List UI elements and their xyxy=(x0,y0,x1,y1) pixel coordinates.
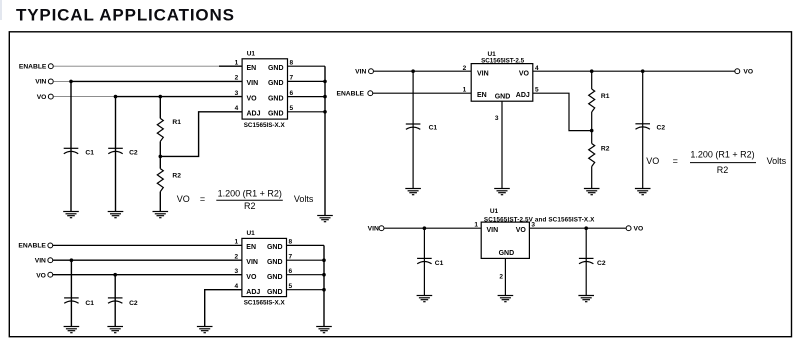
svg-text:=: = xyxy=(200,194,205,204)
svg-text:VO: VO xyxy=(519,71,530,78)
svg-text:GND: GND xyxy=(268,65,284,72)
node VIN terminal xyxy=(379,226,384,231)
svg-text:EN: EN xyxy=(246,244,256,251)
resistor R1 xyxy=(157,118,163,141)
wire VO node to R1 xyxy=(591,71,593,89)
junction VO/R1 xyxy=(159,95,163,99)
wire C2 branch xyxy=(115,97,117,211)
svg-text:R1: R1 xyxy=(601,93,610,100)
capacitor C2 xyxy=(635,124,650,129)
svg-text:VIN: VIN xyxy=(487,227,499,234)
svg-text:1: 1 xyxy=(463,87,467,94)
svg-text:VIN: VIN xyxy=(247,80,259,87)
svg-text:C1: C1 xyxy=(85,300,94,307)
junction pin 6 xyxy=(323,95,327,99)
svg-text:C1: C1 xyxy=(429,124,438,131)
IC U1 body xyxy=(242,238,287,296)
svg-text:VO: VO xyxy=(634,226,644,233)
svg-text:3: 3 xyxy=(234,268,238,275)
svg-text:3: 3 xyxy=(495,115,499,122)
capacitor C1 xyxy=(64,298,79,303)
svg-text:ENABLE: ENABLE xyxy=(19,64,47,71)
junction pin 7 xyxy=(322,258,326,262)
svg-text:U1: U1 xyxy=(490,208,499,215)
ground C2 xyxy=(578,296,594,302)
junction pin 7 xyxy=(323,80,327,84)
svg-text:Volts: Volts xyxy=(767,156,787,166)
svg-text:EN: EN xyxy=(477,92,487,99)
wire C1 branch xyxy=(412,71,414,188)
svg-text:4: 4 xyxy=(234,283,238,290)
wire pin 5 stub xyxy=(287,289,325,291)
svg-text:5: 5 xyxy=(535,87,539,94)
junction pin 5 xyxy=(322,288,326,292)
wire U1 pin 4 VO to VO terminal xyxy=(533,70,735,72)
wire C1 branch xyxy=(423,228,425,295)
svg-text:VO: VO xyxy=(743,69,753,76)
capacitor C1 xyxy=(406,124,421,129)
junction VO/C2 xyxy=(641,69,645,73)
wire C2 branch xyxy=(585,228,587,295)
svg-text:5: 5 xyxy=(290,105,294,112)
node VO terminal xyxy=(48,272,53,277)
node VIN terminal xyxy=(48,258,53,263)
node VO terminal xyxy=(48,94,53,99)
capacitor C2 xyxy=(108,148,123,153)
ground C1 xyxy=(64,327,80,333)
wire GND pin to ground xyxy=(504,258,506,295)
formula VO = 1.200(R1+R2)/R2 Volts xyxy=(646,150,786,176)
svg-text:TYPICAL APPLICATIONS: TYPICAL APPLICATIONS xyxy=(16,6,235,25)
svg-text:C2: C2 xyxy=(129,150,138,157)
svg-text:=: = xyxy=(673,156,678,166)
wire pin 7 stub xyxy=(288,80,326,82)
IC U1 body xyxy=(471,64,533,102)
svg-text:VO: VO xyxy=(36,272,46,279)
svg-text:GND: GND xyxy=(495,93,511,100)
junction VO/C2 xyxy=(584,226,588,230)
node VO terminal xyxy=(626,226,631,231)
svg-text:ENABLE: ENABLE xyxy=(18,243,46,250)
ground GND bus xyxy=(316,327,332,333)
wire pin 5 stub xyxy=(288,111,326,113)
svg-text:C2: C2 xyxy=(129,300,138,307)
svg-text:GND: GND xyxy=(268,111,284,118)
svg-text:SC1565IST-2.5V and SC1565IST-X: SC1565IST-2.5V and SC1565IST-X.X xyxy=(484,217,595,224)
resistor R1 xyxy=(589,89,595,112)
junction VO/C2 xyxy=(113,273,117,277)
node ENABLE terminal xyxy=(48,243,53,248)
svg-text:7: 7 xyxy=(289,253,293,260)
wire VO terminal to C2 node xyxy=(53,274,115,276)
svg-text:6: 6 xyxy=(290,90,294,97)
wire VO node to R1 xyxy=(159,97,161,119)
svg-text:R2: R2 xyxy=(172,173,181,180)
svg-text:C2: C2 xyxy=(597,260,606,267)
ground U1 GND xyxy=(494,189,510,195)
wire pin 7 stub xyxy=(287,259,325,261)
ground C1 xyxy=(417,296,433,302)
node ENABLE terminal xyxy=(48,64,53,69)
wire U1 pin 5 ADJ to R1/R2 node xyxy=(533,93,592,130)
wire pin 6 stub xyxy=(287,274,325,276)
svg-text:R2: R2 xyxy=(244,201,256,211)
svg-text:GND: GND xyxy=(267,244,283,251)
node VO terminal xyxy=(735,69,740,74)
wire pin 6 stub xyxy=(288,96,326,98)
svg-text:2: 2 xyxy=(463,65,467,72)
svg-text:VIN: VIN xyxy=(477,71,489,78)
junction VO/C2 xyxy=(114,95,118,99)
wire C2 branch xyxy=(114,275,116,326)
resistor R2 xyxy=(157,169,163,192)
ground R2 xyxy=(584,189,600,195)
ground C1 xyxy=(63,212,79,218)
wire VO terminal to C2 node xyxy=(54,96,116,98)
svg-text:EN: EN xyxy=(247,65,257,72)
svg-text:2: 2 xyxy=(499,273,503,280)
svg-text:VIN: VIN xyxy=(355,69,366,76)
wire VIN to U1 pin 1 xyxy=(384,227,481,229)
wire C1 branch xyxy=(70,260,72,326)
wire GND bus to ground xyxy=(323,245,325,326)
svg-text:SC1565IS-X.X: SC1565IS-X.X xyxy=(244,122,286,129)
junction VO/R1 xyxy=(590,69,594,73)
node VIN terminal xyxy=(369,69,374,74)
wire C2 node to U1 pin 3 xyxy=(116,96,243,98)
junction VIN/C1 xyxy=(411,69,415,73)
svg-text:VIN: VIN xyxy=(246,259,258,266)
svg-text:GND: GND xyxy=(267,259,283,266)
IC U1 body xyxy=(481,222,529,258)
wire GND pin to ground xyxy=(501,101,503,188)
resistor R2 xyxy=(589,144,595,167)
svg-text:ENABLE: ENABLE xyxy=(337,91,365,98)
svg-text:C1: C1 xyxy=(435,260,444,267)
ground R2 xyxy=(153,212,169,218)
junction ADJ/R1/R2 xyxy=(590,129,594,133)
junction VIN/C1 xyxy=(69,80,73,84)
formula VO = 1.200(R1+R2)/R2 Volts xyxy=(177,188,314,211)
junction VIN/C1 xyxy=(423,226,427,230)
capacitor C1 xyxy=(64,148,79,153)
junction R1/R2/ADJ xyxy=(159,155,163,159)
wire VIN terminal to C1 node xyxy=(54,80,72,82)
svg-text:VO: VO xyxy=(646,156,659,166)
wire C1 branch xyxy=(70,81,72,211)
wire pin 8 stub xyxy=(287,244,325,246)
svg-text:8: 8 xyxy=(290,59,294,66)
capacitor C1 xyxy=(417,258,432,263)
ground ADJ xyxy=(197,327,213,333)
capacitor C2 xyxy=(108,298,123,303)
svg-text:3: 3 xyxy=(531,222,535,229)
wire VIN terminal to C1 node xyxy=(53,259,71,261)
svg-text:VO: VO xyxy=(247,95,258,102)
svg-text:VIN: VIN xyxy=(368,226,379,233)
svg-text:ADJ: ADJ xyxy=(246,289,260,296)
svg-text:1: 1 xyxy=(235,59,239,66)
svg-text:Volts: Volts xyxy=(294,194,314,204)
node VIN terminal xyxy=(48,79,53,84)
ground C1 xyxy=(405,189,421,195)
junction pin 6 xyxy=(322,273,326,277)
wire GND bus to ground xyxy=(324,66,326,215)
svg-text:ADJ: ADJ xyxy=(516,92,530,99)
wire C1 node to U1 pin 2 xyxy=(71,259,242,261)
svg-text:1.200 (R1 + R2): 1.200 (R1 + R2) xyxy=(218,188,282,198)
wire U1 pin 3 VO to VO terminal xyxy=(529,227,626,229)
svg-text:VO: VO xyxy=(37,94,47,101)
svg-text:4: 4 xyxy=(235,105,239,112)
wire pin 8 stub xyxy=(288,65,326,67)
wire R2 to ground xyxy=(159,192,161,211)
svg-text:8: 8 xyxy=(289,239,293,246)
wire R1 to node xyxy=(159,141,161,168)
svg-text:VO: VO xyxy=(177,194,190,204)
svg-text:VO: VO xyxy=(516,227,527,234)
ground C2 xyxy=(108,212,124,218)
ground GND bus xyxy=(317,216,333,222)
junction VIN/C1 xyxy=(70,258,74,262)
wire VIN to U1 pin 2 xyxy=(374,70,472,72)
IC U1 body xyxy=(242,59,287,119)
capacitor C2 xyxy=(579,258,594,263)
svg-text:SC1565IS-X.X: SC1565IS-X.X xyxy=(244,300,286,307)
svg-text:VO: VO xyxy=(246,274,257,281)
wire C2 branch xyxy=(642,71,644,188)
svg-text:GND: GND xyxy=(268,95,284,102)
svg-text:1: 1 xyxy=(234,239,238,246)
wire ENABLE to U1 pin 1 xyxy=(53,244,242,246)
wire ENABLE to U1 pin 1 xyxy=(54,65,220,67)
svg-text:ADJ: ADJ xyxy=(247,111,261,118)
ground U1 GND xyxy=(498,296,514,302)
svg-text:R2: R2 xyxy=(717,165,729,175)
svg-text:SC1565IST-2.5: SC1565IST-2.5 xyxy=(481,58,525,65)
wire U1 pin 4 ADJ to ground xyxy=(205,290,242,326)
svg-text:U1: U1 xyxy=(247,50,256,57)
wire R1 to node xyxy=(591,112,593,144)
svg-text:GND: GND xyxy=(267,289,283,296)
wire C1 node to U1 pin 2 xyxy=(71,80,242,82)
svg-text:1.200 (R1 + R2): 1.200 (R1 + R2) xyxy=(690,150,754,160)
svg-text:C1: C1 xyxy=(85,150,94,157)
svg-text:C2: C2 xyxy=(657,124,666,131)
svg-text:VIN: VIN xyxy=(35,79,46,86)
svg-text:R2: R2 xyxy=(601,146,610,153)
wire C2 node to U1 pin 3 xyxy=(115,274,242,276)
svg-text:VIN: VIN xyxy=(35,258,46,265)
ground C2 xyxy=(107,327,123,333)
wire ENABLE to U1 pin 1 xyxy=(373,92,471,94)
ground C2 xyxy=(635,189,651,195)
svg-text:2: 2 xyxy=(235,75,239,82)
svg-text:U1: U1 xyxy=(246,230,255,237)
svg-text:7: 7 xyxy=(290,75,294,82)
svg-text:GND: GND xyxy=(267,274,283,281)
svg-text:R1: R1 xyxy=(172,119,181,126)
wire R2 to ground xyxy=(591,167,593,189)
node ENABLE terminal xyxy=(368,91,373,96)
wire U1 pin 4 ADJ to R1/R2 node xyxy=(160,112,242,157)
svg-text:GND: GND xyxy=(499,250,515,257)
svg-text:GND: GND xyxy=(268,80,284,87)
junction pin 5 xyxy=(323,110,327,114)
svg-text:2: 2 xyxy=(234,253,238,260)
svg-text:1: 1 xyxy=(474,222,478,229)
svg-text:3: 3 xyxy=(235,90,239,97)
